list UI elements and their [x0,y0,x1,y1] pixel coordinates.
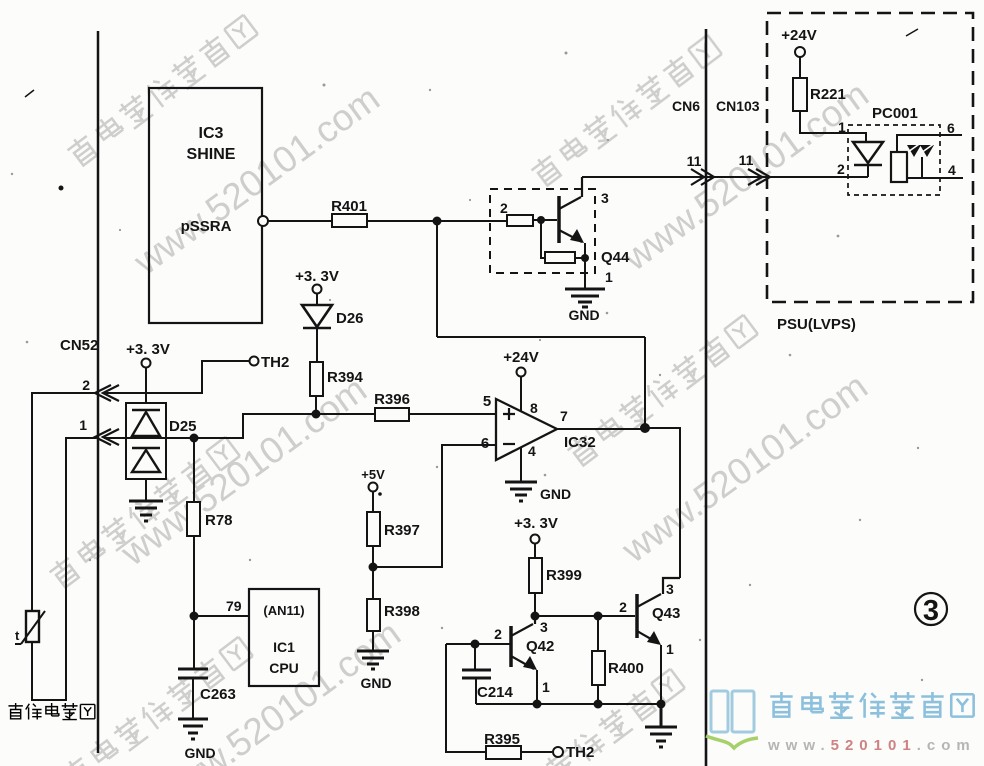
ground below IC32 [505,482,571,502]
svg-text:R395: R395 [484,731,520,748]
supply +3.3V for R399 [514,515,558,558]
logo book swoosh [706,736,758,748]
svg-text:GND: GND [360,675,391,691]
wire Q42 base loop to R395 [446,644,486,752]
svg-text:1: 1 [838,119,846,135]
wire CN52 pin1 through D25 [104,437,243,439]
svg-text:pSSRA: pSSRA [181,218,232,235]
svg-text:Q42: Q42 [526,638,554,655]
wire down to op-amp output node [644,337,646,428]
svg-text:1: 1 [542,679,550,695]
svg-text:2: 2 [837,161,845,177]
node R400 top [594,612,603,621]
node TH2 terminal bottom [553,744,594,761]
watermark hanzi row at 163,90 [65,13,259,169]
emitter rail [476,703,662,705]
wire collector rail to Q43 base [535,615,635,617]
svg-text:3: 3 [666,581,674,597]
ground below R398 [357,651,392,691]
wire R394 node left and down to D25 node [199,414,316,438]
ground below D25 [129,501,163,521]
node junction at R401 output [433,217,442,226]
stray mark top right [906,29,918,36]
capacitor C214 [462,644,514,704]
svg-text:PC001: PC001 [872,105,918,122]
node below R394 [312,410,321,419]
svg-text:R401: R401 [331,198,367,215]
supply +24V PSU [781,27,816,78]
svg-text:+3. 3V: +3. 3V [295,268,339,285]
wire down from R401 node [436,221,438,337]
wire IC3 to R401 [268,220,332,222]
transistor Q43 [619,578,680,704]
pin 4 lead PC001 [907,157,963,178]
resistor R400 [592,616,644,704]
wire Q42 base [446,643,511,645]
capacitor C263 [178,616,236,719]
resistor R401 [331,198,367,227]
dashed module box around Q44 [490,189,595,273]
watermark hanzi row at 158,712 [60,635,254,766]
IC IC3 (SHINE) [149,88,262,323]
svg-text:2: 2 [619,599,627,615]
svg-text:C214: C214 [477,684,514,701]
pin 11 chevron right [739,152,770,185]
svg-text:TH2: TH2 [566,744,594,761]
IC32 ground pin 4 [520,447,522,482]
wire Q44 collector to PC001 pin2 [582,176,868,178]
svg-text:SHINE: SHINE [187,146,236,163]
resistor R78 [187,438,233,616]
svg-text:D25: D25 [169,418,197,435]
svg-text:4: 4 [948,162,956,178]
pin 6 lead PC001 [897,135,962,152]
dashed box PSU(LVPS) [767,13,973,302]
watermark hanzi row at 615,408 [565,313,759,469]
wire R401 to Q44 base [367,220,507,222]
label thermistor chinese [8,703,94,720]
transistor Q42 [494,616,554,704]
resistor R396 [374,391,496,421]
resistor R397 [367,512,420,599]
node Q44 base junction [537,216,545,224]
svg-text:CN103: CN103 [716,98,760,114]
svg-text:6: 6 [947,120,955,136]
svg-text:79: 79 [226,598,242,614]
diode pair D25 [126,403,197,479]
svg-text:PSU(LVPS): PSU(LVPS) [777,316,856,333]
svg-text:+24V: +24V [503,349,538,366]
svg-text:GND: GND [184,745,215,761]
resistor R394 [310,362,364,414]
svg-text:1: 1 [79,417,87,433]
board edge line CN52 side [97,31,100,753]
ground below C263 [178,719,216,761]
node Q42 emitter [533,700,542,709]
svg-text:+3. 3V: +3. 3V [126,341,170,358]
svg-text:1: 1 [605,269,613,285]
supply +3.3V for D26 [295,268,339,294]
resistor R221 [793,78,866,142]
svg-text:GND: GND [540,486,571,502]
svg-text:IC1: IC1 [273,639,295,655]
svg-text:R396: R396 [374,391,410,408]
node R78 bottom [190,612,199,621]
node divider [369,563,378,572]
svg-text:+3. 3V: +3. 3V [514,515,558,532]
resistor R398 [367,599,420,651]
svg-text:Q44: Q44 [601,249,630,266]
svg-text:CN52: CN52 [60,337,98,354]
wire resistor to base [533,219,557,221]
svg-text:+24V: +24V [781,27,816,44]
resistor Q44 base-emitter (unlabelled) [541,220,585,263]
svg-text:2: 2 [494,626,502,642]
triac arrows PC001 [907,142,935,157]
svg-text:IC32: IC32 [564,434,596,451]
thermistor bottom loop back to CN52 pin1 [32,438,96,700]
stray dot left [59,186,64,191]
svg-text:3: 3 [923,595,939,627]
scan noise specks [11,52,923,682]
resistor Q44 base (unlabelled) [507,215,533,226]
svg-text:www.520101.com: www.520101.com [767,737,976,754]
supply +5V [361,467,385,512]
node C214 top [471,640,480,649]
svg-text:11: 11 [739,152,754,168]
watermark hanzi row at 145,512 [47,435,241,591]
svg-text:7: 7 [560,408,568,424]
stray mark top-left [25,90,34,97]
wire to IC1 pin 79 [194,598,249,616]
page number circled 3 [915,593,947,627]
svg-text:C263: C263 [200,686,236,703]
supply +24V for IC32 [503,349,538,412]
svg-text:5: 5 [483,393,491,410]
node D25 junction [190,434,199,443]
svg-text:2: 2 [82,377,90,393]
svg-text:R78: R78 [205,512,233,529]
optocoupler PC001 dashed box [848,125,940,195]
wire CN52 pin2 to TH2 stub [104,361,249,393]
watermark hanzi row at 590,744 [492,667,686,766]
svg-text:R400: R400 [608,660,644,677]
svg-text:GND: GND [568,307,599,323]
svg-text:3: 3 [540,619,548,635]
svg-text:CPU: CPU [269,660,299,676]
watermark hanzi row at 627,110 [529,33,723,189]
svg-text:8: 8 [530,400,538,416]
D25 bottom lead [145,479,147,501]
svg-text:4: 4 [528,443,536,459]
node R399 bottom / Q42 collector [531,612,540,621]
node Q43 emitter on rail [657,700,666,709]
svg-text:TH2: TH2 [261,354,289,371]
CN52 pin 1 chevron [79,417,119,445]
svg-text:R394: R394 [327,369,364,386]
svg-text:R221: R221 [810,86,846,103]
svg-text:IC3: IC3 [199,125,224,142]
wire CN52 pin2 to thermistor [32,393,96,611]
node R400 bottom [594,700,603,709]
diode D26 [302,293,364,362]
wire IC32 output to node [557,428,645,430]
svg-text:11: 11 [687,153,702,169]
svg-text:R398: R398 [384,603,420,620]
svg-text:R399: R399 [546,567,582,584]
svg-text:+5V: +5V [361,467,385,482]
svg-text:2: 2 [500,200,508,216]
connector line CN6/CN103 [705,29,708,766]
pin 11 chevron left [687,153,714,185]
supply +3.3V above D25 [126,341,170,403]
wire across to op-amp output column [437,336,645,338]
LED inside PC001 [853,142,883,177]
svg-text:R397: R397 [384,522,420,539]
svg-text:(AN11): (AN11) [263,603,304,618]
wire IC32 output node down to Q43 collector [645,428,680,578]
node Q44 emitter junction [581,254,589,262]
svg-text:6: 6 [481,435,489,452]
IC3 output terminal [258,216,268,226]
op-amp IC32 [481,393,596,460]
svg-text:3: 3 [601,190,609,206]
svg-text:1: 1 [666,641,674,657]
logo site name hanzi [770,692,973,718]
svg-text:CN6: CN6 [672,98,700,114]
logo book icon [711,691,754,732]
node IC32 output [640,423,650,433]
CN52 pin 2 chevron [82,377,119,401]
svg-text:Q43: Q43 [652,605,680,622]
thermistor (t) [15,611,45,644]
IC IC1 (CPU AN11) [249,589,319,686]
phototriac body PC001 [891,152,907,182]
IC32 pin6 wire to divider [373,445,496,567]
svg-text:t: t [15,628,20,643]
wire R394 node to R396 [316,413,375,415]
transistor Q44 [559,177,630,289]
svg-text:D26: D26 [336,310,364,327]
node TH2 terminal [250,354,290,371]
resistor R395 [484,731,552,759]
ground below Q44 [565,289,605,323]
ground below rail [645,704,677,747]
resistor R399 [529,558,582,616]
